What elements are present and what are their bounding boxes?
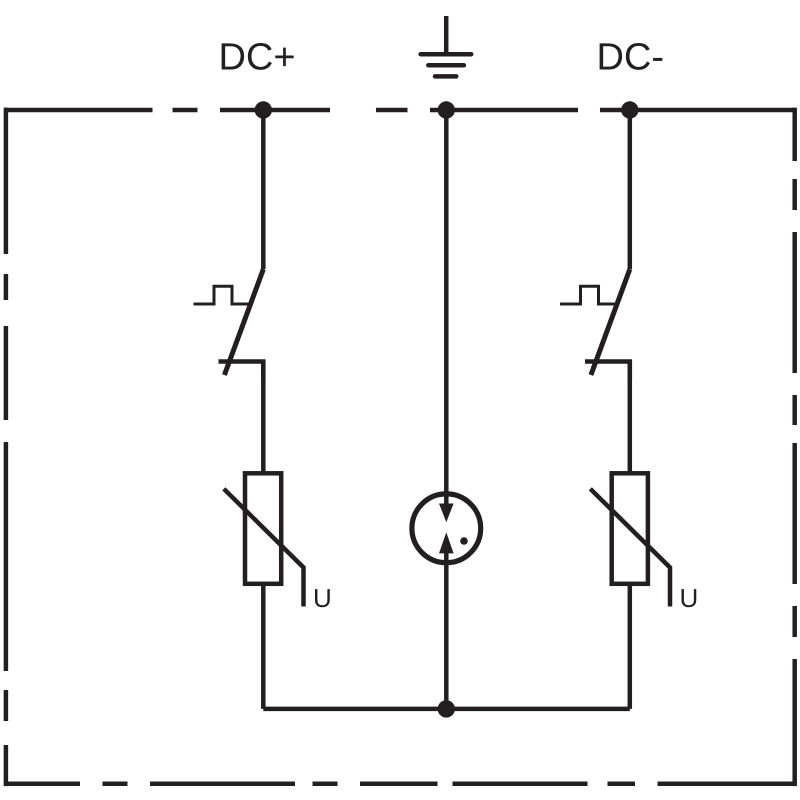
wire: disconnector to varistor (DC- branch): [628, 362, 633, 473]
wire: varistor to bottom bus (DC- branch): [628, 584, 633, 709]
node PE junction: [438, 101, 455, 118]
varistor (DC+ branch): [224, 473, 304, 606]
varistor voltage label U (DC+ branch): [315, 589, 330, 607]
ground: [421, 16, 472, 76]
varistor voltage label U (DC- branch): [682, 589, 697, 607]
wire: PE branch lower segment: [444, 551, 449, 709]
node DC+ junction: [255, 101, 272, 118]
varistor (DC- branch): [590, 473, 670, 606]
wire: DC- branch from top node to disconnector: [628, 110, 633, 269]
enclosure dashed border: bottom edge: [6, 781, 795, 786]
thermal disconnector (DC+ branch): [194, 269, 264, 380]
wire: varistor to bottom bus (DC+ branch): [261, 584, 266, 709]
wire: DC+ branch from top node to disconnector: [261, 110, 266, 269]
bottom junction node: [438, 700, 455, 717]
enclosure dashed border: left edge: [4, 108, 9, 787]
node DC- junction: [621, 101, 638, 118]
gas discharge tube (spark gap): [412, 494, 481, 563]
wire: disconnector to varistor (DC+ branch): [261, 362, 266, 473]
enclosure dashed border: right edge: [792, 108, 797, 787]
enclosure dashed border: top edge: [4, 108, 795, 113]
bottom bus wire: [263, 707, 630, 712]
thermal disconnector (DC- branch): [560, 269, 630, 380]
terminal label DC-: [600, 43, 663, 70]
terminal label DC+: [222, 43, 294, 70]
wire: PE branch upper segment: [444, 110, 449, 506]
